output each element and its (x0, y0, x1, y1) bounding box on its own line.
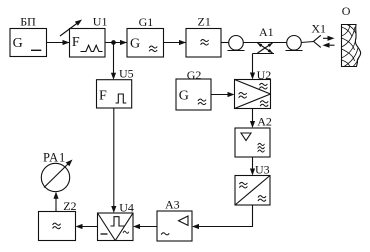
svg-text:БП: БП (20, 15, 36, 29)
svg-text:U4: U4 (119, 200, 134, 214)
svg-text:G: G (179, 89, 189, 104)
svg-text:U3: U3 (255, 163, 270, 177)
svg-text:A2: A2 (257, 114, 272, 128)
svg-text:Z1: Z1 (198, 15, 211, 29)
svg-text:U1: U1 (93, 15, 108, 29)
svg-text:G: G (130, 36, 140, 51)
svg-text:X1: X1 (311, 21, 326, 35)
svg-text:Z2: Z2 (63, 199, 76, 213)
svg-text:О: О (342, 4, 351, 18)
svg-text:G2: G2 (187, 68, 202, 82)
svg-text:A3: A3 (165, 198, 180, 212)
svg-text:A1: A1 (259, 25, 274, 39)
svg-text:G1: G1 (139, 15, 154, 29)
svg-text:F: F (99, 88, 107, 103)
svg-text:U5: U5 (119, 67, 134, 81)
svg-text:F: F (72, 35, 80, 50)
svg-text:U2: U2 (257, 68, 272, 82)
svg-text:РА1: РА1 (43, 150, 66, 164)
svg-text:G: G (13, 36, 23, 51)
